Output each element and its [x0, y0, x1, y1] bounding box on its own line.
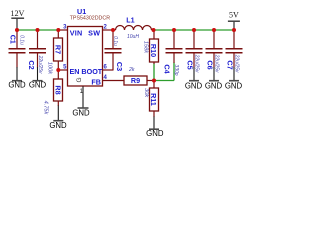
svg-text:GND: GND — [225, 82, 243, 91]
svg-text:2k: 2k — [128, 67, 135, 73]
svg-text:GND: GND — [185, 82, 203, 91]
svg-text:C7: C7 — [226, 60, 235, 69]
svg-text:C5: C5 — [186, 60, 195, 69]
svg-text:C1: C1 — [8, 35, 17, 44]
svg-text:C6: C6 — [206, 60, 215, 69]
svg-text:L1: L1 — [126, 15, 134, 24]
svg-text:158k: 158k — [143, 41, 149, 54]
svg-text:22u/25v: 22u/25v — [234, 54, 240, 73]
svg-text:5V: 5V — [229, 11, 239, 20]
svg-text:0.1u: 0.1u — [112, 36, 118, 46]
svg-text:22u/25v: 22u/25v — [194, 54, 200, 73]
svg-text:C2: C2 — [27, 60, 36, 69]
svg-text:R9: R9 — [131, 76, 140, 85]
svg-text:GND: GND — [49, 121, 67, 130]
svg-text:GND: GND — [205, 82, 223, 91]
svg-text:C4: C4 — [163, 64, 172, 73]
svg-text:FB: FB — [91, 77, 101, 86]
svg-text:G: G — [76, 77, 83, 82]
svg-text:SW: SW — [88, 29, 100, 38]
svg-text:R7: R7 — [53, 45, 62, 54]
svg-text:GND: GND — [8, 81, 26, 90]
svg-text:EN: EN — [70, 67, 80, 76]
svg-text:12V: 12V — [10, 9, 24, 18]
svg-text:100k: 100k — [47, 62, 53, 75]
svg-text:C3: C3 — [115, 62, 124, 71]
svg-text:TPS54302DDCR: TPS54302DDCR — [70, 15, 111, 21]
svg-text:VIN: VIN — [70, 29, 83, 38]
svg-text:GND: GND — [72, 108, 90, 117]
svg-text:GND: GND — [146, 129, 164, 138]
svg-text:330p: 330p — [173, 64, 179, 75]
svg-text:R10: R10 — [149, 44, 158, 57]
svg-text:10uH: 10uH — [127, 34, 139, 40]
svg-text:R11: R11 — [149, 93, 158, 106]
svg-text:4.75k: 4.75k — [42, 101, 48, 116]
svg-text:22u/25v: 22u/25v — [214, 54, 220, 73]
svg-text:BOOT: BOOT — [81, 67, 102, 76]
svg-text:30k: 30k — [143, 88, 149, 98]
svg-text:R8: R8 — [53, 85, 62, 94]
svg-text:0.1u: 0.1u — [19, 35, 25, 45]
svg-text:GND: GND — [29, 81, 47, 90]
svg-text:22u/25v: 22u/25v — [37, 55, 43, 74]
